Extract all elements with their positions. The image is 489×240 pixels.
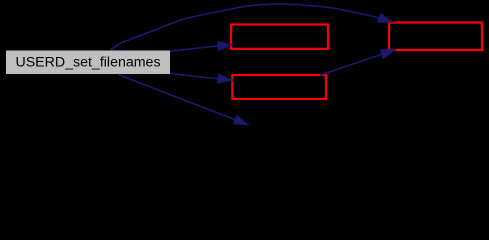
node1 (red box, hidden label)	[231, 25, 328, 49]
edge USERD_set_filenames -> node1	[170, 45, 233, 52]
node2 (red box, hidden label)	[232, 75, 326, 99]
node3 (red box, hidden label)	[389, 23, 482, 51]
edge node2 -> node3	[320, 49, 396, 75]
svg-text:USERD_set_filenames: USERD_set_filenames	[15, 55, 160, 71]
node USERD_set_filenames (current node, gray)	[6, 51, 170, 75]
edge USERD_set_filenames -> node3 (top curve)	[111, 4, 394, 50]
edge USERD_set_filenames -> node2	[170, 74, 233, 81]
edge USERD_set_filenames -> hidden bottom node	[118, 74, 250, 125]
